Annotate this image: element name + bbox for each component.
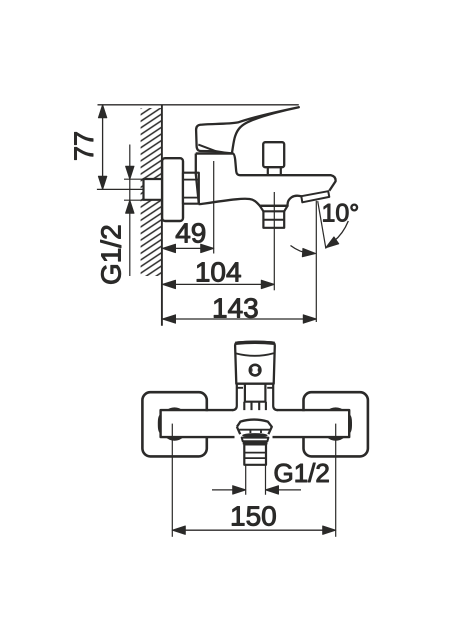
right s-connector dark edge [349,414,352,434]
indicator right wedge [258,368,259,373]
10deg arc right [334,221,349,242]
G1/2 arrow down [126,166,134,179]
spout aerator dark ellipse [242,433,267,438]
wall face line / extension line [161,106,163,326]
dim 104 line [163,283,275,285]
wall flange [162,158,183,221]
spout tip vertical line [315,201,317,322]
pipe top extension line [124,178,143,180]
svg-text:G1/2: G1/2 [274,458,330,488]
right wall plate [304,392,368,456]
housing collar ticks [237,387,273,389]
spout face step line [239,429,270,431]
left s-connector dark edge [158,414,161,434]
lever neck front [245,378,266,402]
cartridge housing right edge [273,384,278,410]
G1/2 front extension lines [246,465,266,495]
svg-text:143: 143 [212,293,259,324]
aerator ring band [242,438,269,442]
wall pipe nipple [144,179,163,200]
handle cap seam [235,353,273,356]
10deg arc left [291,246,310,254]
dim 150 left extension line [171,424,173,537]
svg-text:10°: 10° [322,199,360,227]
dim 104 extension line [273,192,275,290]
nipple thread lines [244,453,266,459]
hex nut facet lines [183,179,199,181]
dim 49 extension line [213,161,215,254]
10deg arc right arrowhead [323,237,338,251]
spout face notch [250,430,261,433]
diverter stem [268,167,281,175]
dim 150 line [172,529,335,531]
shower outlet flare [260,206,288,212]
body bar outline right [273,410,350,437]
handle top thick edge [235,342,274,343]
G1/2 front right arrow [266,489,301,491]
svg-text:104: 104 [195,256,242,287]
svg-text:G1/2: G1/2 [96,224,127,285]
body underside [199,196,302,206]
left connector bulge bottom [166,437,184,441]
pipe bottom extension line [124,199,143,201]
shower outlet nipple [263,211,284,228]
G1/2 front left arrow [212,489,245,491]
dim 77 arrow down [98,176,106,189]
wall hatching [141,108,162,276]
dark band under ring [243,441,268,444]
right connector bulge top [327,407,345,411]
lever handle [196,107,299,153]
cartridge housing fill [238,384,272,410]
dim 77 line [102,105,104,189]
body bar fill [160,411,351,436]
svg-text:150: 150 [230,500,277,531]
cartridge housing left edge [232,384,237,410]
svg-text:77: 77 [69,131,99,161]
hex nut [183,173,199,204]
G1/2 arrow up [126,200,134,213]
body bar outline left [161,410,235,437]
spout aerator (tilted) [301,191,329,202]
indicator circle [250,365,261,376]
left wall plate [142,392,206,456]
dim 150 right extension line [335,424,337,537]
10deg slant line [318,201,326,249]
top extension line (handle top) [98,104,299,106]
G1/2 leader line [129,145,131,277]
handle front facet line [198,145,216,152]
right connector bulge bottom [327,437,345,441]
indicator left wedge [251,368,252,373]
pipe centerline [97,188,172,190]
svg-text:49: 49 [175,217,206,248]
faucet body [196,154,336,205]
dim 77 arrow up [98,105,106,118]
diverter knob [263,142,284,167]
cartridge top line [196,152,233,154]
dim 143 line [163,318,317,320]
10deg arc left arrowhead [302,248,316,257]
spout face barrel [237,420,272,435]
neck legs [244,402,266,410]
nipple thread line [263,219,284,221]
outlet nipple front [244,444,266,464]
dim 49 line [163,247,214,249]
handle front [235,342,275,384]
left connector bulge top [166,407,184,411]
